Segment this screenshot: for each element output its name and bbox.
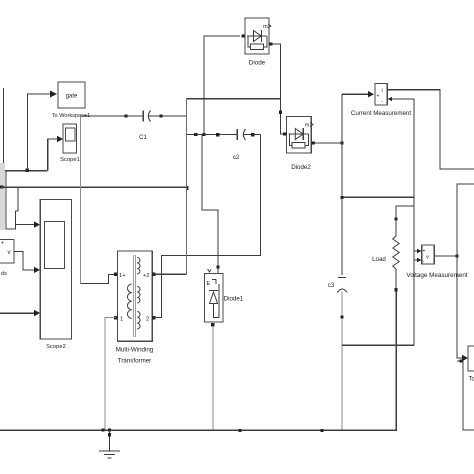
node junction (279, 111, 282, 114)
arrowhead into voltage measurement minus (417, 258, 422, 263)
svg-text:+: + (1, 241, 4, 247)
wire (187, 98, 281, 100)
svg-text:Diode: Diode (249, 60, 266, 67)
wire (204, 36, 240, 135)
port (159, 114, 162, 117)
wire c2 left (187, 134, 238, 136)
arrowhead into Scope2 input 1 (34, 221, 40, 227)
svg-text:E: E (207, 281, 211, 287)
wire (396, 206, 414, 219)
wire (342, 196, 414, 198)
wire (154, 273, 187, 275)
port (114, 316, 117, 319)
port (152, 316, 155, 319)
arrowhead into Scope2 input 3 (34, 310, 40, 316)
svg-text:Transformer: Transformer (118, 358, 151, 365)
port (312, 141, 315, 144)
node junction (455, 254, 458, 257)
port (216, 265, 219, 268)
voltage measurement (406, 245, 468, 279)
svg-text:Diode2: Diode2 (291, 164, 311, 171)
svg-text:c2: c2 (233, 155, 240, 161)
port (242, 34, 245, 37)
ground (99, 430, 120, 458)
svg-text:Current Measurement: Current Measurement (351, 110, 411, 117)
node junction (340, 141, 343, 144)
port (394, 217, 397, 220)
svg-text:+: + (423, 249, 426, 255)
svg-text:Scope2: Scope2 (46, 344, 66, 350)
resistor Load (393, 236, 399, 269)
node vertical (186, 99, 188, 275)
port (0, 185, 3, 188)
svg-text:Voltage Measurement: Voltage Measurement (406, 272, 468, 279)
wire (457, 361, 474, 430)
svg-text:v: v (8, 250, 11, 256)
node junction (26, 169, 29, 172)
wire (342, 344, 414, 346)
wire (80, 115, 143, 117)
port (114, 273, 117, 276)
wire (387, 99, 414, 345)
arrowhead into Current Measurement (368, 91, 374, 97)
capacitor c2 (237, 129, 245, 140)
svg-text:1+: 1+ (119, 273, 126, 279)
arrowhead into Scope1 (57, 136, 63, 142)
node junction (239, 429, 242, 432)
partial block at left edge (0, 163, 5, 230)
port (152, 273, 155, 276)
svg-text:Load: Load (372, 256, 386, 263)
port (283, 132, 286, 135)
diode Diode2 (287, 117, 313, 171)
node junction (102, 428, 105, 431)
port (124, 114, 127, 117)
svg-text:Diode1: Diode1 (224, 296, 244, 303)
wire (395, 220, 397, 236)
wire (341, 292, 343, 431)
scope Scope2 (40, 200, 71, 351)
wire (149, 115, 187, 117)
diode Diode1 (205, 269, 244, 322)
svg-text:1: 1 (120, 317, 123, 323)
svg-text:To: To (469, 377, 474, 383)
current measurement (351, 84, 411, 118)
wire end tick (186, 186, 189, 190)
voltage measurement block at left edge (0, 240, 14, 278)
svg-text:ds: ds (1, 271, 7, 277)
svg-text:+2: +2 (143, 273, 150, 279)
capacitor C1 (143, 111, 150, 122)
svg-text:m: m (305, 123, 310, 129)
node junction (460, 360, 463, 363)
svg-text:m: m (263, 24, 268, 30)
svg-text:i: i (382, 88, 383, 94)
wire (202, 135, 218, 274)
svg-text:Multi-Winding: Multi-Winding (116, 347, 154, 354)
wire (28, 94, 52, 171)
port (394, 288, 397, 291)
arrowhead into gate block (50, 91, 57, 98)
arrowhead into voltage measurement plus (417, 249, 422, 254)
svg-text:+: + (377, 94, 380, 100)
wire (434, 255, 457, 257)
node junction (108, 428, 111, 431)
node junction (202, 133, 205, 136)
arrowhead into Scope2 input 2 (34, 267, 40, 273)
svg-text:Scope1: Scope1 (60, 157, 80, 163)
arrowhead into current measurement right (388, 97, 392, 101)
wire (0, 170, 48, 172)
capacitor c3 (337, 277, 347, 292)
wire (457, 184, 474, 358)
wire (313, 142, 342, 144)
svg-text:v: v (426, 255, 429, 261)
wire (342, 93, 369, 95)
wire (48, 139, 58, 171)
wire (395, 269, 397, 288)
wire (80, 274, 114, 283)
port (211, 323, 214, 326)
svg-text:gate: gate (66, 94, 78, 100)
port (216, 133, 219, 136)
wire (3, 88, 5, 171)
wire (0, 292, 396, 430)
port (340, 315, 343, 318)
wire (271, 44, 285, 134)
transformer Multi-Winding Transformer (116, 251, 154, 365)
svg-text:C1: C1 (139, 135, 147, 141)
wire (6, 171, 16, 230)
wire (0, 312, 35, 314)
arrowhead into To Workspace2 (462, 355, 468, 361)
svg-text:c3: c3 (328, 283, 335, 289)
wire (154, 135, 261, 318)
block To Workspace2 (468, 346, 474, 383)
node junction (341, 196, 344, 199)
port (251, 133, 254, 136)
wire c2 right (244, 134, 261, 136)
wire (105, 318, 116, 430)
wire (387, 90, 474, 169)
scope Scope1 (60, 124, 80, 163)
block To Workspace1 (gate) (52, 82, 90, 119)
wire (16, 187, 35, 225)
wire (414, 250, 418, 252)
wire (14, 251, 35, 270)
wire (212, 326, 214, 430)
wire C1 node riser (79, 116, 81, 284)
node vertical right (341, 94, 343, 275)
wire (414, 259, 418, 261)
diode Diode (245, 18, 271, 67)
wire (1, 186, 187, 188)
port (269, 42, 272, 45)
node junction (194, 133, 197, 136)
svg-text:2: 2 (146, 317, 149, 323)
node junction (321, 429, 324, 432)
